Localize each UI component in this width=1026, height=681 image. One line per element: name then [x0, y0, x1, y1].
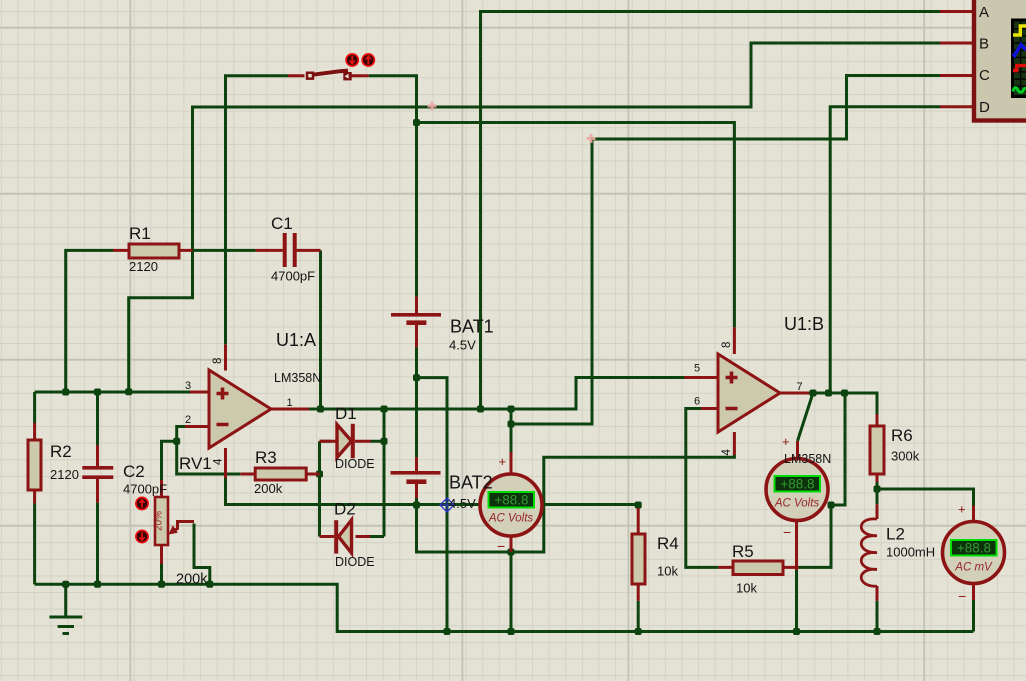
- svg-text:U1:A: U1:A: [276, 330, 316, 350]
- svg-text:+88.8: +88.8: [780, 477, 814, 492]
- pink artifact cross 1: [428, 102, 437, 111]
- interactive button switch-up: [362, 54, 374, 66]
- svg-text:3: 3: [185, 380, 191, 392]
- R2 leads: [33, 423, 36, 504]
- wire bottom-left ground rail y=584.3, step down at x=337.2 to right rail y=631.5: [35, 584, 974, 631]
- wire scope-C net: from scope C down x=846.5, left y=139, down x=592, left y=424 to node on x=511: [511, 76, 940, 425]
- svg-text:4: 4: [721, 449, 733, 456]
- wire meter1 minus to bottom rail: [510, 552, 513, 632]
- L2 leads: [876, 504, 879, 600]
- node C tap: [508, 421, 515, 428]
- node bottom rail dots: [444, 628, 451, 635]
- potentiometer RV1 body: [155, 497, 168, 545]
- D2 leads: [320, 535, 371, 538]
- svg-text:200k: 200k: [254, 481, 283, 496]
- node R6/L2 junction: [874, 486, 881, 493]
- svg-text:10k: 10k: [736, 581, 757, 596]
- node R3 right: [316, 471, 323, 478]
- svg-text:+: +: [499, 454, 507, 469]
- BAT2 leads: [415, 457, 418, 498]
- C2 leads: [96, 445, 99, 503]
- U1:B output stub: [780, 392, 809, 395]
- wire C1 right lead down to output rail: [319, 250, 322, 409]
- wire RV1 bottom lead: [160, 564, 163, 584]
- svg-text:4.5V: 4.5V: [449, 496, 476, 511]
- wire R6 bottom to L2 top junction: [876, 482, 879, 504]
- inductor L2 coil: [861, 519, 877, 586]
- voltmeter meter1 AC Volts body: [480, 474, 542, 536]
- svg-text:D2: D2: [334, 500, 356, 519]
- wire pin3 rail y=392: [35, 391, 190, 394]
- U1:B pin4 stub: [733, 432, 736, 455]
- node D1 right: [381, 438, 388, 445]
- diode D1: [337, 425, 352, 458]
- resistor R3: [255, 468, 306, 480]
- svg-text:B: B: [979, 36, 989, 53]
- svg-text:BAT1: BAT1: [450, 317, 494, 337]
- capacitor C1 plates: [283, 233, 287, 267]
- R6 leads: [876, 414, 879, 482]
- svg-text:LM358N: LM358N: [784, 452, 831, 466]
- RV1 top/bottom leads: [160, 480, 163, 564]
- svg-text:10k: 10k: [657, 564, 678, 579]
- U1:B pin6 stub: [701, 407, 718, 410]
- svg-text:7: 7: [797, 381, 803, 393]
- wire R2 top lead: [33, 392, 36, 423]
- svg-text:C2: C2: [123, 462, 145, 481]
- wire +V rail y=122.5 to U1:B pin 8: [417, 123, 735, 328]
- node U1:B output dots: [810, 390, 817, 397]
- svg-text:2120: 2120: [129, 259, 158, 274]
- wire scope-D net: from scope D left y=106.8 then down x=830.2 to U1:B output rail: [830, 107, 940, 393]
- svg-text:R2: R2: [50, 442, 72, 461]
- wire R3 right to diode ladder vertical x=319.5: [320, 441, 332, 536]
- svg-text:+: +: [782, 434, 790, 449]
- U1:A pin2 stub: [185, 425, 209, 428]
- wire pin2 node branch to RV1 top: [162, 441, 177, 480]
- resistor R5: [733, 561, 783, 575]
- node output rail U1:A dots: [317, 406, 324, 413]
- svg-text:D: D: [979, 99, 990, 116]
- meter3 LCD: [951, 540, 997, 556]
- node bottom-left rail dots: [62, 581, 69, 588]
- meter1 stubs: [510, 452, 513, 552]
- wire scope-B net: from scope B down x=751, left along y=107, down x=192.5 step to pin3 rail: [129, 43, 940, 392]
- oscilloscope trace A yellow: [1013, 26, 1026, 35]
- interactive button RV1-up: [136, 497, 148, 509]
- capacitor C2 plates: [82, 466, 113, 470]
- wire -V long wire y=504.5 from U1:A pin4 to R4 top: [226, 478, 639, 505]
- wire meter2 minus to bottom rail: [795, 570, 798, 632]
- svg-text:U1:B: U1:B: [784, 314, 824, 334]
- op-amp U1:B: [718, 354, 780, 432]
- wire D1 right to x=384 vertical: [370, 409, 384, 537]
- svg-text:1000mH: 1000mH: [886, 545, 935, 560]
- millivoltmeter meter3 AC mV body: [943, 522, 1005, 584]
- oscilloscope trace B blue: [1013, 45, 1026, 56]
- svg-text:8: 8: [721, 342, 733, 348]
- pink artifact cross 2: [587, 134, 596, 143]
- scope pin stubs A,B,C,D: [940, 12, 972, 107]
- svg-text:DIODE: DIODE: [335, 555, 375, 569]
- battery BAT1 plates: [391, 313, 441, 317]
- potentiometer RV1 wiper arrowhead: [169, 525, 178, 534]
- svg-text:200k: 200k: [176, 572, 208, 588]
- svg-text:6: 6: [694, 396, 700, 408]
- svg-text:C: C: [979, 67, 990, 84]
- interactive button switch-down: [346, 54, 358, 66]
- U1:A pin8 stub: [224, 344, 227, 370]
- svg-text:+: +: [958, 502, 966, 517]
- svg-text:C1: C1: [271, 214, 293, 233]
- node R4 top: [635, 502, 642, 509]
- svg-text:−: −: [958, 588, 966, 604]
- oscilloscope screen: [1013, 20, 1026, 97]
- battery BAT2 plates: [391, 471, 441, 475]
- wire U1:B output rail y=393 to R6: [809, 393, 877, 414]
- svg-text:LM358N: LM358N: [274, 371, 321, 385]
- svg-text:AC Volts: AC Volts: [488, 513, 534, 525]
- svg-text:−: −: [497, 538, 505, 554]
- node pin3 rail dots: [62, 389, 69, 396]
- resistor R2: [28, 440, 41, 490]
- R4 leads: [637, 508, 640, 601]
- U1:B pin8 stub: [733, 327, 736, 354]
- svg-text:R5: R5: [732, 542, 754, 561]
- U1:A pin3 stub: [190, 391, 209, 394]
- svg-text:R6: R6: [891, 426, 913, 445]
- svg-text:RV1: RV1: [179, 454, 212, 473]
- svg-text:−: −: [783, 524, 791, 540]
- C1 leads: [256, 249, 321, 252]
- oscilloscope body: [974, 0, 1026, 121]
- wire BAT2- down and across y=552 up x=543.8 to pin-4 line y=457.3: [417, 455, 735, 552]
- svg-text:AC Volts: AC Volts: [774, 498, 820, 510]
- diode D2: [339, 520, 352, 553]
- node pin2/RV1: [173, 438, 180, 445]
- svg-text:2120: 2120: [50, 467, 79, 482]
- wire C2 top and bottom leads: [96, 392, 99, 584]
- blue origin marker near BAT2: [440, 498, 454, 512]
- wire U1:B pin6 down to R5 left: [686, 409, 719, 568]
- svg-text:4700pF: 4700pF: [271, 269, 315, 284]
- U1:B pin5 stub: [685, 376, 719, 379]
- switch leads: [288, 74, 369, 77]
- meter3 stubs: [972, 506, 975, 601]
- R1 leads: [113, 249, 193, 252]
- switch lever and contacts: [312, 71, 348, 75]
- svg-text:20%: 20%: [154, 511, 165, 531]
- wire R2 bottom lead: [33, 504, 36, 585]
- wire R5 right up to output rail via x=831/845: [799, 393, 846, 567]
- BAT1 leads: [415, 297, 418, 348]
- wire R1-C1 junction segment: [193, 249, 256, 252]
- node BAT2-: [413, 502, 420, 509]
- RV1 wiper wire: [173, 522, 195, 532]
- svg-text:AC mV: AC mV: [954, 562, 993, 574]
- wire scope-A net: horizontal y=11.5 and vertical x=480.5 down to U1:A output rail: [481, 12, 941, 410]
- meter2 stubs: [797, 441, 798, 570]
- wire R1 left lead down to pin3 rail: [66, 250, 113, 391]
- node BAT1-: [413, 374, 420, 381]
- wire switch left contact to U1:A pin 8 vertical x=225.5: [226, 76, 289, 345]
- wire switch right contact to BAT1+ node: [369, 76, 417, 123]
- svg-text:BAT2: BAT2: [449, 473, 493, 493]
- svg-text:DIODE: DIODE: [335, 457, 375, 471]
- U1:A pin4 stub: [224, 448, 227, 478]
- resistor R1: [129, 244, 179, 258]
- wire pin2 node down to R3 row: [177, 427, 241, 475]
- wire RV1 wiper path to bottom rail: [194, 524, 210, 585]
- resistor R6: [870, 426, 884, 474]
- R3 leads: [240, 473, 319, 476]
- meter1 LCD: [489, 492, 535, 508]
- R5 leads: [718, 566, 798, 569]
- op-amp U1:A: [209, 370, 271, 448]
- oscilloscope trace D green: [1013, 88, 1026, 93]
- svg-text:4700pF: 4700pF: [123, 482, 167, 497]
- svg-text:D1: D1: [335, 404, 357, 423]
- svg-text:4: 4: [213, 458, 225, 465]
- node R5 right corner: [828, 502, 835, 509]
- svg-text:8: 8: [212, 358, 224, 364]
- svg-text:R3: R3: [255, 448, 277, 467]
- node meter1 minus: [508, 549, 515, 556]
- wire U1:A output rail y=409 and step up to U1:B pin 5: [309, 378, 685, 410]
- voltmeter meter2 AC Volts body: [766, 459, 828, 521]
- svg-text:1: 1: [287, 397, 293, 409]
- U1:A output stub: [271, 408, 309, 411]
- wire L2/R6 junction to AC mV meter3 +: [877, 489, 974, 506]
- svg-text:R4: R4: [657, 534, 679, 553]
- wire L2 bottom to rail: [876, 601, 879, 632]
- D1 leads: [320, 440, 372, 443]
- svg-text:4.5V: 4.5V: [449, 338, 476, 353]
- wire R4 leads: [637, 505, 640, 632]
- wire slant from output node to meter2 +: [798, 393, 814, 441]
- oscilloscope trace C red: [1013, 66, 1026, 71]
- wire BAT1- midpoint branch to ground column x=447: [417, 378, 448, 632]
- svg-text:300k: 300k: [891, 449, 920, 464]
- wire BAT1 column x=416.5: [415, 123, 418, 458]
- node BAT1+: [413, 119, 420, 126]
- interactive button RV1-down: [136, 530, 148, 542]
- svg-text:L2: L2: [886, 525, 905, 544]
- svg-text:+88.8: +88.8: [494, 493, 528, 508]
- svg-text:5: 5: [694, 363, 700, 375]
- svg-text:A: A: [979, 4, 989, 21]
- svg-text:2: 2: [185, 414, 191, 426]
- svg-text:+88.8: +88.8: [957, 541, 991, 556]
- svg-text:R1: R1: [129, 224, 151, 243]
- ground symbol: [49, 584, 82, 633]
- wire output node down to AC Volts meter1 +: [510, 409, 513, 452]
- meter2 LCD: [775, 476, 821, 492]
- resistor R4: [632, 534, 645, 584]
- wire meter3 minus to rail corner: [972, 600, 975, 632]
